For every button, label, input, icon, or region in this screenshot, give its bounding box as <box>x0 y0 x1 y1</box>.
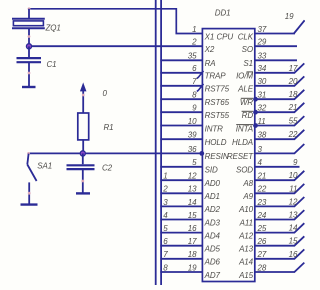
svg-text:4: 4 <box>258 158 263 167</box>
svg-text:11: 11 <box>258 117 266 126</box>
svg-text:11: 11 <box>289 184 297 193</box>
svg-text:AD0: AD0 <box>204 179 221 188</box>
pin 22 A9 wire <box>255 184 304 193</box>
svg-text:21: 21 <box>288 103 298 112</box>
svg-text:5: 5 <box>163 224 168 233</box>
svg-text:19: 19 <box>188 263 197 272</box>
wire RST65 net (bus to pin 8) <box>160 98 202 100</box>
pin 3 RESET wire <box>255 144 304 153</box>
svg-text:33: 33 <box>258 52 267 61</box>
svg-text:SOD: SOD <box>236 166 253 175</box>
svg-text:1: 1 <box>192 25 196 34</box>
svg-text:0: 0 <box>103 89 108 98</box>
pin label INTA <box>236 124 253 133</box>
svg-text:16: 16 <box>289 250 298 259</box>
svg-text:35: 35 <box>188 52 197 61</box>
pin 19 AD7 label/number <box>188 263 221 279</box>
dynamic-input mark (RST75) <box>197 84 204 92</box>
pin 33 S1 wire <box>255 59 297 61</box>
svg-text:7: 7 <box>192 77 197 86</box>
node junction R1/C2/SA1/RESIN <box>80 151 85 156</box>
pin 37 CLK wire <box>255 20 305 33</box>
inversion dot (RD) <box>253 110 258 115</box>
svg-text:RESET: RESET <box>227 152 254 161</box>
crystal ZQ1 <box>12 9 45 47</box>
svg-text:HLDA: HLDA <box>232 138 253 147</box>
svg-text:21: 21 <box>257 172 267 181</box>
svg-text:1: 1 <box>163 172 167 181</box>
svg-text:14: 14 <box>289 224 298 233</box>
svg-text:24: 24 <box>257 211 267 220</box>
svg-text:27: 27 <box>257 250 267 259</box>
svg-text:28: 28 <box>257 263 267 272</box>
svg-text:WR: WR <box>240 98 253 107</box>
wire AD2 net (bus to pin 14) <box>160 205 202 207</box>
wire RST75 net (bus to pin 7) <box>160 85 202 87</box>
svg-text:19: 19 <box>285 12 294 21</box>
pin 14 AD2 label/number <box>188 198 221 214</box>
capacitor C2 <box>67 153 95 192</box>
svg-text:36: 36 <box>188 145 197 154</box>
svg-text:26: 26 <box>257 237 267 246</box>
svg-text:R1: R1 <box>104 123 114 132</box>
svg-text:31: 31 <box>258 91 267 100</box>
inversion dot (RESIN) <box>199 151 204 156</box>
capacitor C1 <box>17 46 42 86</box>
pin 2 X2 label/number <box>191 38 215 54</box>
svg-text:18: 18 <box>289 90 298 99</box>
pin 35 RA label/number <box>188 52 216 68</box>
svg-text:A11: A11 <box>239 218 253 227</box>
svg-text:12: 12 <box>289 197 298 206</box>
svg-text:AD6: AD6 <box>204 258 221 267</box>
wire AD5 net (bus to pin 17) <box>160 245 202 247</box>
bus line left <box>155 0 157 285</box>
svg-text:A10: A10 <box>238 205 254 214</box>
svg-text:ALE: ALE <box>237 85 254 94</box>
pin 30 ALE wire <box>255 76 304 85</box>
pin 27 A14 wire <box>255 249 304 258</box>
svg-text:2: 2 <box>162 185 168 194</box>
pin 25 A12 wire <box>255 223 304 232</box>
svg-text:22: 22 <box>257 185 267 194</box>
svg-text:29: 29 <box>257 38 267 47</box>
svg-text:32: 32 <box>258 104 267 113</box>
svg-text:3: 3 <box>258 145 263 154</box>
pin 28 A15 wire <box>255 263 304 272</box>
svg-text:SID: SID <box>205 166 218 175</box>
svg-text:A15: A15 <box>238 271 254 280</box>
svg-text:RD: RD <box>242 111 254 120</box>
pin 15 AD3 label/number <box>188 211 221 227</box>
svg-text:15: 15 <box>188 211 197 220</box>
wire AD7 net (bus to pin 19) <box>160 271 202 273</box>
inversion dot (WR) <box>253 97 258 102</box>
pin 4 SOD wire <box>255 166 300 168</box>
svg-text:9: 9 <box>293 158 298 167</box>
svg-text:18: 18 <box>188 250 197 259</box>
ground (C1) <box>22 86 36 88</box>
wire AD0 net (bus to pin 12) <box>160 179 202 181</box>
pin 26 A13 wire <box>255 236 304 245</box>
svg-text:RA: RA <box>205 59 216 68</box>
svg-text:INTA: INTA <box>236 124 253 133</box>
svg-text:6: 6 <box>192 64 197 73</box>
svg-text:AD5: AD5 <box>204 245 221 254</box>
pin 29 SO wire <box>255 45 297 47</box>
svg-text:34: 34 <box>258 64 267 73</box>
pin 32 RD wire <box>255 103 304 112</box>
svg-text:15: 15 <box>289 237 298 246</box>
svg-text:17: 17 <box>289 64 298 73</box>
bus line right <box>160 0 162 285</box>
svg-text:RESIN: RESIN <box>205 152 229 161</box>
svg-text:RST75: RST75 <box>205 85 230 94</box>
wire AD6 net (bus to pin 18) <box>160 258 202 260</box>
svg-text:55: 55 <box>289 117 298 126</box>
svg-text:23: 23 <box>257 198 267 207</box>
wire INTR net (bus to pin 10) <box>160 125 202 127</box>
svg-text:5: 5 <box>192 158 197 167</box>
wire RST55 net (bus to pin 9) <box>160 111 202 113</box>
pin 1 X1 label/number <box>192 25 214 41</box>
power arrow (to R1) <box>81 84 86 114</box>
svg-text:8: 8 <box>163 263 168 272</box>
pin 16 AD4 label/number <box>188 224 221 240</box>
pin 18 AD6 label/number <box>188 250 221 266</box>
svg-text:AD4: AD4 <box>204 231 221 240</box>
pin 24 A11 wire <box>255 210 304 219</box>
svg-text:SA1: SA1 <box>37 161 52 170</box>
svg-text:CLK: CLK <box>238 32 254 41</box>
svg-text:S1: S1 <box>243 59 253 68</box>
wire HOLD net (bus to pin 39) <box>160 138 202 140</box>
pin 39 HOLD label/number <box>188 131 227 147</box>
svg-text:INTR: INTR <box>205 124 224 133</box>
wire TRAP net (bus to pin 6) <box>160 72 202 74</box>
svg-text:12: 12 <box>188 172 197 181</box>
wire RESIN net (SA1/C2 node to pin RESIN) <box>29 152 203 154</box>
svg-text:38: 38 <box>258 131 267 140</box>
pin 12 AD0 label/number <box>188 172 221 188</box>
wire X1 net (crystal to pin X1) <box>28 7 203 33</box>
pin 31 WR wire <box>255 90 304 99</box>
svg-text:37: 37 <box>258 25 267 34</box>
svg-text:X1: X1 <box>204 32 215 41</box>
svg-text:AD7: AD7 <box>204 271 221 280</box>
svg-text:7: 7 <box>163 250 168 259</box>
svg-text:SO: SO <box>242 45 253 54</box>
svg-text:A14: A14 <box>238 258 254 267</box>
wire AD3 net (bus to pin 15) <box>160 219 202 221</box>
svg-text:14: 14 <box>188 198 197 207</box>
svg-text:A9: A9 <box>242 192 253 201</box>
svg-text:3: 3 <box>163 198 168 207</box>
wire R1 to junction <box>82 140 84 154</box>
svg-text:8: 8 <box>192 91 197 100</box>
ground (C2) <box>76 192 90 194</box>
svg-text:CPU: CPU <box>217 33 234 42</box>
pin 17 AD5 label/number <box>188 237 221 253</box>
svg-text:A12: A12 <box>238 231 254 240</box>
svg-text:A8: A8 <box>242 179 253 188</box>
svg-text:DD1: DD1 <box>215 9 231 18</box>
svg-text:10: 10 <box>289 171 298 180</box>
svg-text:13: 13 <box>188 185 197 194</box>
pin label IOM <box>236 72 253 81</box>
svg-text:TRAP: TRAP <box>205 72 227 81</box>
IC DD1 (CPU) body <box>202 29 254 282</box>
svg-text:ZQ1: ZQ1 <box>45 24 61 33</box>
svg-text:IO/M: IO/M <box>236 72 253 81</box>
pin 11 INTA wire <box>255 116 304 125</box>
svg-text:30: 30 <box>258 77 267 86</box>
pin label RD <box>242 111 254 120</box>
dynamic-input mark (TRAP) <box>197 71 204 79</box>
svg-text:X2: X2 <box>204 45 215 54</box>
pin 23 A10 wire <box>255 197 304 206</box>
svg-text:RST55: RST55 <box>205 111 230 120</box>
pin 10 INTR label/number <box>188 117 223 133</box>
pin 36 RESIN label/number <box>188 145 229 161</box>
svg-text:16: 16 <box>188 224 197 233</box>
svg-text:AD1: AD1 <box>204 192 220 201</box>
svg-text:6: 6 <box>163 237 168 246</box>
pin 6 TRAP label/number <box>192 64 226 80</box>
svg-text:22: 22 <box>288 130 298 139</box>
wire AD1 net (bus to pin 13) <box>160 192 202 194</box>
svg-text:13: 13 <box>289 211 298 220</box>
pin 5 SID label/number <box>192 158 218 174</box>
svg-text:4: 4 <box>163 211 168 220</box>
svg-text:AD2: AD2 <box>204 205 221 214</box>
inversion dot (INTA) <box>253 123 258 128</box>
wire SID net (bus to pin 5) <box>160 166 202 168</box>
svg-text:C2: C2 <box>102 164 113 173</box>
pin 34 IOM wire <box>255 63 304 72</box>
svg-text:2: 2 <box>191 38 197 47</box>
pin 21 A8 wire <box>255 171 304 180</box>
svg-text:39: 39 <box>188 131 197 140</box>
wire X2 net (junction to pin X2) <box>29 45 202 47</box>
pin 13 AD1 label/number <box>188 185 220 201</box>
pin 8 RST65 label/number <box>192 91 230 107</box>
svg-text:C1: C1 <box>47 60 57 69</box>
pin label WR <box>240 98 253 107</box>
ground (SA1) <box>21 203 38 205</box>
svg-text:10: 10 <box>188 117 197 126</box>
svg-text:A13: A13 <box>238 245 254 254</box>
svg-text:20: 20 <box>288 77 298 86</box>
svg-text:25: 25 <box>257 224 267 233</box>
wire RA net (bus to pin 35) <box>160 59 202 61</box>
pin 38 HLDA wire <box>255 130 304 139</box>
wire AD4 net (bus to pin 16) <box>160 232 202 234</box>
svg-text:17: 17 <box>188 237 197 246</box>
svg-text:RST65: RST65 <box>205 98 230 107</box>
svg-text:9: 9 <box>192 104 197 113</box>
resistor R1 <box>78 113 89 140</box>
svg-text:HOLD: HOLD <box>205 138 227 147</box>
pin 7 RST75 label/number <box>192 77 230 93</box>
svg-text:AD3: AD3 <box>204 218 221 227</box>
switch SA1 <box>27 152 36 204</box>
pin 9 RST55 label/number <box>192 104 230 120</box>
node junction crystal/C1/X2 <box>26 44 31 49</box>
